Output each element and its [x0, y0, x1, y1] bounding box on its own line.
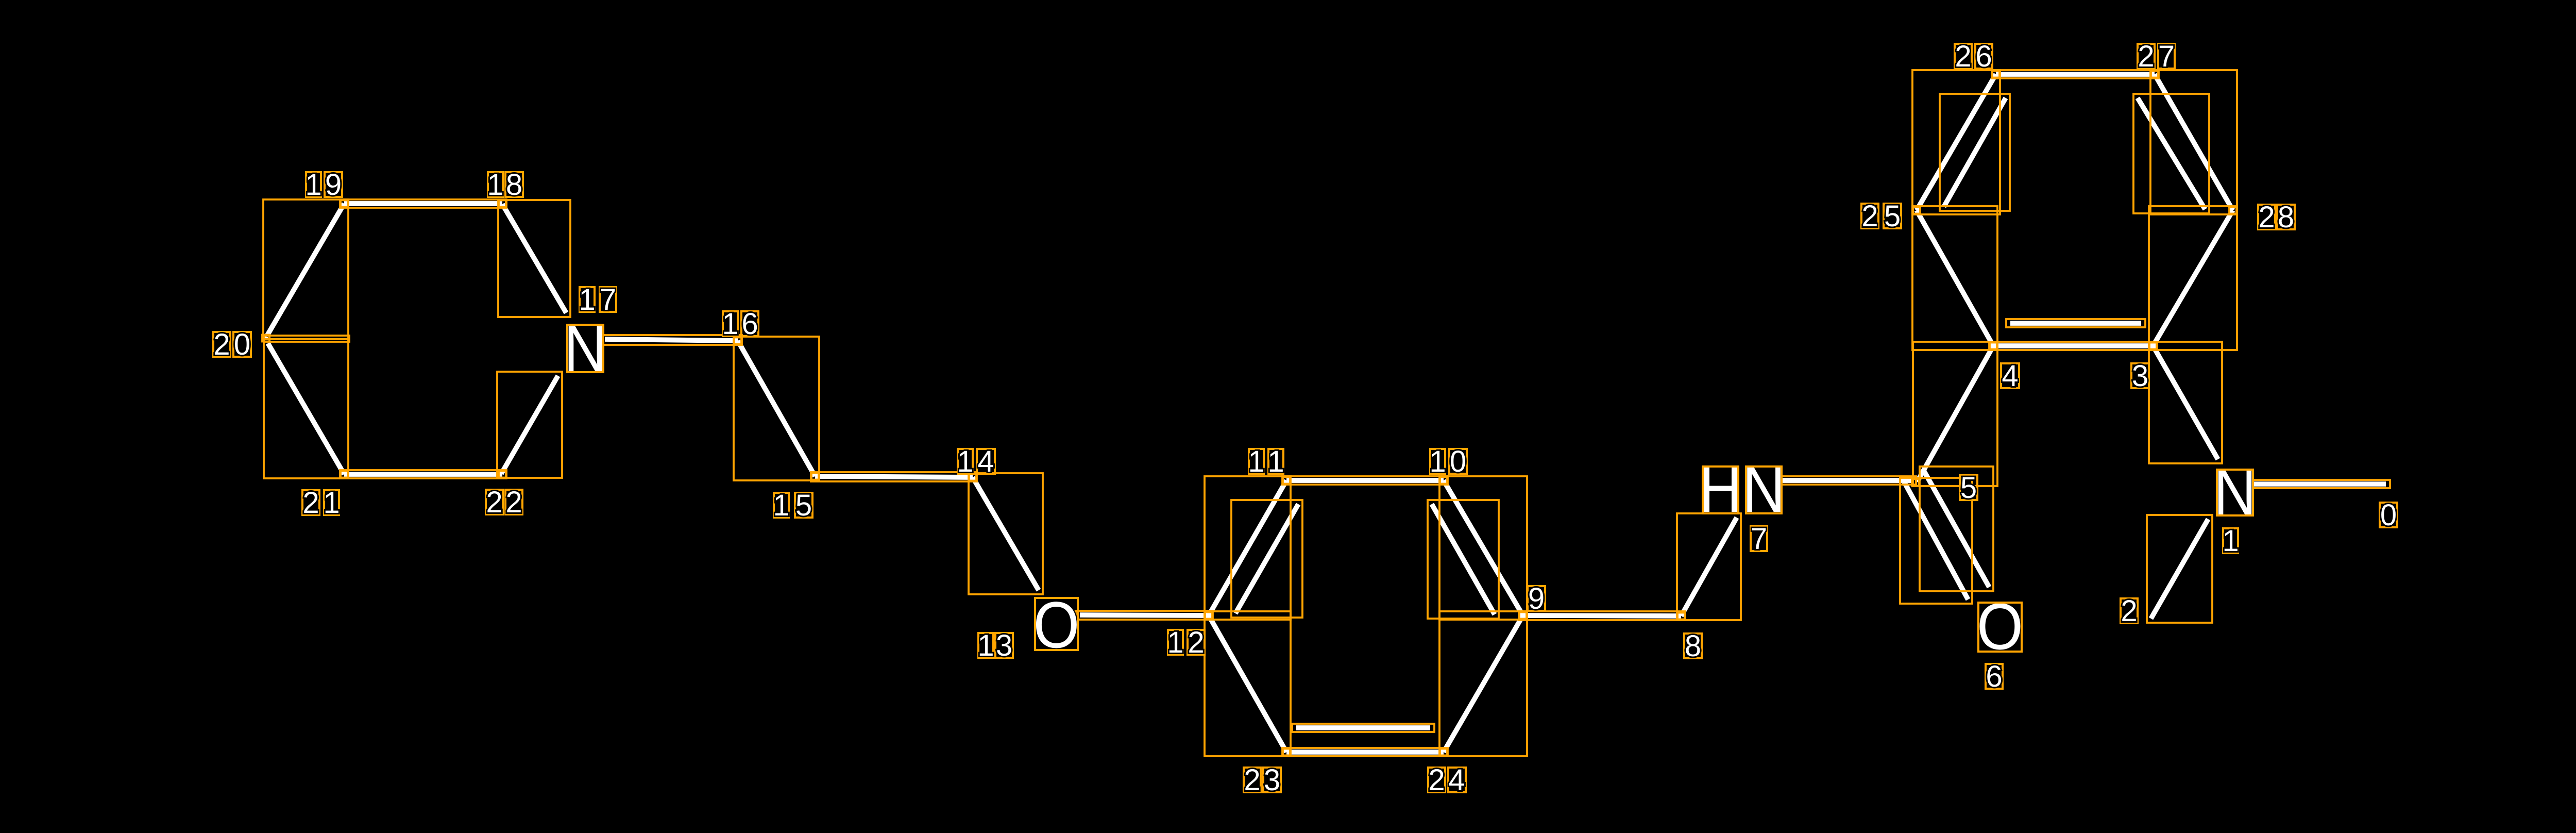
svg-text:4: 4	[1448, 763, 1465, 797]
svg-text:6: 6	[1986, 660, 2002, 693]
atom 9 anchor box	[1519, 612, 1527, 619]
svg-text:9: 9	[1528, 582, 1545, 615]
label 22 digit boxes	[486, 490, 503, 514]
label 1 text	[2222, 524, 2239, 558]
label 18 text	[487, 168, 503, 202]
atom O6 (carbonyl oxygen) box	[1978, 603, 2022, 652]
svg-text:5: 5	[1960, 471, 1977, 505]
svg-text:2: 2	[1244, 763, 1260, 797]
atom 25 anchor box	[1913, 207, 1920, 214]
atom 14 anchor box	[969, 474, 976, 481]
bond C4-C25	[1917, 210, 1993, 346]
svg-text:8: 8	[2278, 201, 2294, 234]
bond C15-C14	[815, 476, 973, 477]
bond C12-C11 (double, main line)	[1209, 480, 1286, 615]
atom N7 attachment anchor box	[1778, 478, 1783, 486]
bond C19-C18 box	[340, 199, 506, 208]
svg-text:4: 4	[977, 445, 994, 478]
atom N17 attachment anchor box	[600, 336, 604, 344]
svg-text:1: 1	[579, 283, 595, 316]
bond C15-C14 box	[811, 472, 977, 481]
bond C5-O6 (double, line 1)	[1904, 482, 1968, 599]
label 15 digit boxes	[774, 493, 789, 518]
bond C3-C4 (double, inner line)	[2010, 321, 2141, 326]
atom N17 (ring nitrogen) box	[567, 325, 603, 372]
bond N7-C5 box	[1778, 476, 1916, 485]
bond C16-C15	[738, 341, 815, 476]
svg-text:4: 4	[2002, 359, 2018, 393]
svg-text:6: 6	[1975, 40, 1992, 73]
bond C8-N7	[1681, 518, 1737, 616]
svg-text:5: 5	[1884, 199, 1901, 233]
label 26 text	[1955, 40, 1971, 73]
bond C26-C27 box	[1992, 70, 2159, 78]
bond C3-N1 box	[2149, 342, 2222, 463]
label 7 text	[1751, 522, 1767, 556]
svg-text:2: 2	[2138, 40, 2154, 73]
bond N1-C2	[2151, 519, 2208, 619]
label 5 digit boxes	[1960, 475, 1977, 500]
atom 27 anchor box	[2151, 71, 2158, 78]
svg-text:2: 2	[1955, 40, 1971, 73]
label 16 text	[722, 307, 738, 341]
svg-text:N: N	[1742, 453, 1785, 526]
label 2 digit boxes	[2121, 598, 2138, 623]
svg-text:9: 9	[325, 168, 342, 202]
atom N7 (amide nitrogen) glyph	[1742, 453, 1785, 526]
bond C9-C8	[1523, 615, 1681, 616]
atom 10 anchor box	[1440, 477, 1447, 484]
label 8 text	[1685, 629, 1701, 663]
label 18 digit boxes	[488, 172, 503, 197]
bond O13-C12 box	[1076, 611, 1213, 620]
bond C19-C20 box	[263, 199, 348, 339]
label 4 text	[2002, 359, 2018, 393]
label 28 digit boxes	[2258, 205, 2275, 229]
svg-text:3: 3	[996, 629, 1012, 662]
atom N7 label H glyph	[1699, 453, 1742, 526]
bond C27-C28 (double, inner line)	[2138, 98, 2205, 209]
atom N7 label H box	[1703, 467, 1738, 513]
bond C22-N17 box	[497, 372, 562, 478]
bond C9-C8 box	[1519, 611, 1685, 620]
svg-text:3: 3	[2132, 359, 2148, 393]
bond C10-C9 (double, main line) box	[1439, 476, 1527, 620]
label 6 digit boxes	[1986, 664, 2003, 689]
label 9 digit boxes	[1528, 586, 1545, 611]
bond C24-C23 (double, inner line) box	[1292, 724, 1434, 732]
svg-text:0: 0	[234, 328, 250, 361]
bond C21-C22	[344, 472, 502, 477]
bond C23-C12 box	[1205, 611, 1291, 756]
atom 5 anchor box	[1912, 479, 1919, 486]
bond C5-O6 (double, line 1) box	[1900, 478, 1972, 604]
bond C8-N7 box	[1677, 513, 1741, 620]
atom 26 anchor box	[1992, 71, 1999, 78]
label 17 digit boxes	[580, 287, 595, 312]
svg-text:5: 5	[795, 489, 812, 522]
bond C4-C5 box	[1913, 342, 1997, 486]
bond C24-C23 (double, main line) box	[1282, 748, 1448, 756]
atom O13 (ether oxygen) glyph	[1033, 588, 1080, 661]
atom 4 anchor box	[1990, 343, 1997, 349]
label 20 digit boxes	[213, 332, 230, 357]
svg-text:1: 1	[1267, 445, 1284, 478]
label 9 text	[1528, 582, 1545, 615]
label 23 digit boxes	[1244, 768, 1261, 792]
bond C5-O6 (double, line 2)	[1924, 471, 1989, 587]
bond C3-N1	[2153, 346, 2218, 459]
svg-text:2: 2	[213, 328, 230, 361]
label 7 digit boxes	[1751, 526, 1767, 551]
label 14 digit boxes	[958, 449, 973, 474]
bond C26-C27	[1996, 72, 2155, 77]
label 24 digit boxes	[1428, 768, 1445, 792]
atom 15 anchor box	[811, 473, 819, 480]
atom 24 anchor box	[1440, 749, 1447, 756]
bond C25-C26 (double, inner line) box	[1940, 94, 2010, 211]
bond C22-N17	[501, 376, 558, 474]
svg-text:N: N	[2213, 455, 2256, 528]
svg-text:7: 7	[2158, 40, 2175, 73]
svg-text:7: 7	[600, 283, 616, 316]
svg-text:1: 1	[1248, 445, 1264, 478]
bond C9-C24	[1444, 615, 1523, 752]
label 12 text	[1167, 626, 1183, 659]
bond C14-O13	[973, 477, 1039, 590]
label 20 text	[213, 328, 230, 361]
label 12 digit boxes	[1168, 630, 1183, 655]
svg-text:1: 1	[773, 489, 789, 522]
bond C3-C4 (double, inner line) box	[2006, 319, 2145, 327]
bond C28-C3 box	[2149, 206, 2237, 350]
svg-text:1: 1	[305, 168, 321, 202]
bond N1-C0	[2253, 481, 2386, 487]
label 19 text	[305, 168, 321, 202]
label 23 text	[1244, 763, 1260, 797]
svg-text:2: 2	[486, 486, 502, 519]
bond C12-C11 (double, main line) box	[1205, 476, 1291, 620]
label 15 text	[773, 489, 789, 522]
label 13 digit boxes	[978, 633, 993, 658]
bond C4-C25 box	[1912, 206, 1997, 350]
bond N7-C5	[1783, 478, 1912, 483]
bond C14-O13 box	[969, 473, 1043, 594]
bond C27-C28 (double, main line) box	[2150, 70, 2237, 214]
label 28 text	[2258, 201, 2275, 234]
atom 18 anchor box	[499, 201, 506, 207]
svg-text:2: 2	[2121, 594, 2137, 628]
bond O13-C12	[1080, 615, 1209, 615]
label 11 text	[1248, 445, 1264, 478]
junction tick at atom 20	[263, 335, 270, 341]
label 2 text	[2121, 594, 2137, 628]
label 10 text	[1429, 445, 1446, 478]
atom 20 anchor box	[262, 335, 269, 342]
svg-text:8: 8	[506, 168, 522, 202]
bond N17-C16 box	[601, 335, 742, 345]
label 19 digit boxes	[306, 172, 321, 197]
svg-text:1: 1	[977, 629, 994, 662]
atom O6 (carbonyl oxygen) glyph	[1977, 590, 2023, 663]
svg-text:H: H	[1699, 453, 1742, 526]
svg-text:2: 2	[1428, 763, 1445, 797]
bond C3-C4 (double, main line)	[1993, 343, 2153, 348]
atom O13 (ether oxygen) box	[1035, 598, 1078, 650]
atom N17 (ring nitrogen) glyph	[564, 312, 606, 385]
bond C23-C12	[1209, 615, 1286, 752]
svg-text:0: 0	[1450, 445, 1466, 478]
svg-text:1: 1	[2222, 524, 2239, 558]
bond C21-C22 box	[340, 470, 506, 478]
label 6 text	[1986, 660, 2002, 693]
svg-text:3: 3	[1264, 763, 1280, 797]
bond C27-C28 (double, main line)	[2155, 74, 2233, 210]
label 1 digit boxes	[2223, 528, 2238, 553]
label 21 text	[302, 486, 319, 520]
label 25 text	[1861, 199, 1878, 233]
svg-text:1: 1	[722, 307, 738, 341]
label 10 digit boxes	[1430, 449, 1445, 474]
svg-text:8: 8	[1685, 629, 1701, 663]
svg-text:1: 1	[1429, 445, 1446, 478]
svg-text:1: 1	[487, 168, 503, 202]
atom 11 anchor box	[1283, 477, 1290, 484]
label 11 digit boxes	[1249, 449, 1264, 474]
svg-text:1: 1	[323, 486, 340, 520]
svg-text:1: 1	[957, 445, 973, 478]
bond C12-C11 (double, inner line) box	[1231, 500, 1302, 618]
atom 28 anchor box	[2229, 207, 2236, 214]
svg-text:2: 2	[1861, 199, 1878, 233]
bond C19-C18	[344, 201, 502, 206]
label 27 text	[2138, 40, 2154, 73]
label 14 text	[957, 445, 973, 478]
bond C12-C11 (double, inner line)	[1235, 504, 1298, 613]
bond C20-C21 box	[264, 339, 348, 478]
bond C27-C28 (double, inner line) box	[2133, 94, 2209, 213]
bond C25-C26 (double, inner line)	[1944, 98, 2006, 207]
label 17 text	[579, 283, 595, 316]
label 0 digit boxes	[2380, 503, 2397, 527]
bond N17-C16	[605, 339, 738, 341]
atom N7 (amide nitrogen) box	[1746, 467, 1782, 513]
bond C10-C9 (double, main line)	[1444, 480, 1523, 615]
atom 20 wide annotation box	[264, 336, 349, 342]
svg-text:1: 1	[1167, 626, 1183, 659]
atom 16 anchor box	[734, 338, 741, 344]
bond C4-C5	[1917, 346, 1993, 482]
atom 22 anchor box	[499, 471, 506, 478]
bond C24-C23 (double, main line)	[1286, 749, 1444, 755]
svg-text:6: 6	[741, 307, 758, 341]
bond C10-C9 (double, inner line) box	[1428, 500, 1499, 619]
bond C20-C21	[268, 343, 344, 474]
bond C25-C26 (double, main line)	[1917, 74, 1996, 210]
label 0 text	[2380, 498, 2397, 532]
svg-text:0: 0	[2380, 498, 2397, 532]
label 25 digit boxes	[1861, 204, 1878, 228]
atom O13 attachment anchor box	[1072, 611, 1078, 618]
label 4 digit boxes	[2001, 363, 2019, 388]
atom 19 anchor box	[341, 201, 348, 207]
bond C3-C4 (double, main line) box	[1989, 342, 2157, 350]
bond C10-C9 (double, inner line)	[1432, 504, 1495, 614]
svg-text:2: 2	[2258, 201, 2275, 234]
bond C16-C15 box	[734, 337, 819, 480]
atom N1 (amine nitrogen) glyph	[2213, 455, 2256, 528]
atom 23 anchor box	[1283, 749, 1290, 756]
bond C28-C3	[2153, 210, 2233, 346]
bond C19-C20	[267, 204, 344, 335]
label 3 digit boxes	[2131, 363, 2149, 388]
atom 12 anchor box	[1205, 612, 1212, 619]
svg-text:N: N	[564, 312, 606, 385]
bond C5-O6 (double, line 2) box	[1920, 467, 1993, 591]
bond C25-C26 (double, main line) box	[1912, 70, 2000, 214]
label 13 text	[977, 629, 994, 662]
bond N1-C2 box	[2147, 515, 2212, 623]
label 21 digit boxes	[302, 490, 319, 515]
svg-text:2: 2	[302, 486, 319, 520]
bond N1-C0 box	[2249, 480, 2390, 488]
atom 21 anchor box	[341, 471, 348, 478]
bond C9-C24 box	[1439, 611, 1527, 756]
atom 8 anchor box	[1677, 613, 1685, 620]
atom 3 anchor box	[2149, 343, 2157, 349]
label 3 text	[2132, 359, 2148, 393]
bond C11-C10 box	[1282, 476, 1448, 485]
label 22 text	[486, 486, 502, 519]
atom N1 attachment anchor box	[2250, 480, 2254, 488]
bond C18-N17 box	[498, 200, 570, 317]
bond C24-C23 (double, inner line)	[1296, 725, 1430, 730]
atom N1 (amine nitrogen) box	[2217, 470, 2253, 515]
label 26 digit boxes	[1955, 44, 1972, 69]
label 16 digit boxes	[723, 311, 738, 336]
label 24 text	[1428, 763, 1445, 797]
label 27 digit boxes	[2138, 44, 2155, 69]
svg-text:2: 2	[505, 486, 522, 519]
bond C11-C10	[1286, 478, 1444, 483]
svg-text:2: 2	[1188, 626, 1204, 659]
label 5 text	[1960, 471, 1977, 505]
bond C18-N17	[502, 204, 566, 313]
label 8 digit boxes	[1684, 634, 1702, 658]
svg-text:7: 7	[1751, 522, 1767, 556]
